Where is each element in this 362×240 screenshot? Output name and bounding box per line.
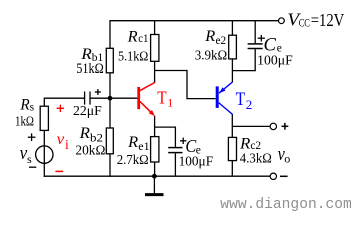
wire Ce2 bottom plate to node E2: [254, 49, 256, 71]
wire Rc2 bottom to ground rail: [231, 161, 233, 177]
label Re2: [204, 28, 226, 47]
label Re1: [127, 134, 150, 153]
terminal output minus circle: [270, 173, 276, 179]
transistor Q2 T2 emitter arrowhead: [219, 87, 225, 93]
wire top VCC rail: [110, 20, 278, 22]
svg-text:v: v: [57, 131, 65, 148]
svg-text:20kΩ: 20kΩ: [75, 144, 105, 159]
label T2: [236, 90, 253, 112]
ground symbol: [145, 176, 164, 194]
svg-text:s: s: [30, 101, 35, 113]
wire Rb1 bottom to node B1: [109, 73, 111, 128]
svg-text:c2: c2: [250, 140, 261, 152]
svg-text:o: o: [284, 152, 290, 166]
svg-text:s: s: [27, 152, 32, 166]
wire Rc1 top drop: [154, 21, 156, 35]
svg-text:3.9kΩ: 3.9kΩ: [195, 49, 228, 64]
polarity minus of vi red: [55, 170, 63, 172]
svg-text:i: i: [65, 137, 69, 152]
polarity minus of output: [280, 175, 288, 177]
svg-text:4.3kΩ: 4.3kΩ: [240, 152, 272, 167]
wire vs to Rs and through source to ground rail: [43, 130, 45, 177]
transistor Q1 T1 base bar: [137, 87, 140, 109]
wire Re1 bottom to ground rail: [154, 162, 156, 176]
resistor Rc2 4.3k box: [228, 137, 236, 160]
svg-text:R: R: [239, 135, 251, 152]
label Rc1: [127, 29, 149, 46]
polarity plus of Ce2: [258, 35, 265, 42]
svg-text:R: R: [127, 134, 138, 151]
svg-text:R: R: [127, 29, 138, 46]
svg-text:=12V: =12V: [311, 10, 345, 30]
junction node B1 dot: [108, 96, 113, 101]
svg-text:e1: e1: [138, 141, 150, 153]
svg-text:www.diangon.com: www.diangon.com: [220, 197, 351, 213]
wire T1 emitter to node E1: [154, 116, 156, 127]
svg-text:T: T: [157, 88, 167, 108]
source vs circle: [36, 146, 53, 163]
wire output node to terminal plus: [232, 125, 270, 127]
capacitor C1 22uF left plate: [84, 92, 86, 105]
label vo: [278, 144, 291, 165]
label Rb1: [80, 46, 103, 64]
wire node E1 to Re1: [154, 127, 156, 137]
wire Rb1 top drop: [109, 20, 111, 48]
capacitor C1 22uF right plate: [89, 92, 91, 105]
label VCC=12V: [287, 10, 344, 30]
resistor Rb2 20k box: [106, 128, 113, 154]
polarity plus of C1: [95, 89, 101, 95]
resistor Re2 3.9k box: [229, 35, 237, 59]
label Rs: [19, 97, 34, 114]
polarity minus of vs: [29, 166, 36, 168]
wire bottom ground rail: [44, 175, 270, 177]
junction ground node dot: [152, 174, 157, 179]
svg-text:22μF: 22μF: [73, 103, 102, 118]
terminal output plus circle: [270, 123, 276, 129]
svg-text:5.1kΩ: 5.1kΩ: [118, 49, 148, 64]
resistor Re1 2.7k box: [151, 137, 159, 162]
label T1: [157, 88, 173, 110]
capacitor Ce1 top plate: [168, 147, 182, 149]
transistor Q1 T1 emitter arrowhead: [149, 110, 155, 116]
terminal VCC circle: [279, 18, 285, 24]
wire source top to capacitor C1: [44, 98, 84, 106]
transistor Q1 T1 collector line: [140, 82, 155, 90]
resistor Rb1 51k box: [106, 48, 113, 73]
wire interstage coupling T1 collector to T2 base: [155, 71, 216, 99]
svg-text:R: R: [19, 97, 30, 114]
label Ce2: [264, 35, 282, 56]
wire T2 collector to output node: [231, 114, 233, 127]
polarity plus of vs: [28, 133, 36, 141]
svg-text:100μF: 100μF: [257, 53, 293, 68]
svg-text:2: 2: [246, 97, 253, 112]
polarity plus of output: [282, 123, 289, 130]
capacitor Ce2 top plate: [248, 43, 263, 45]
svg-text:R: R: [204, 28, 215, 45]
svg-text:R: R: [79, 125, 91, 142]
label vs: [20, 143, 32, 166]
wire node E1 to capacitor Ce1: [155, 127, 176, 147]
wire node E2 to capacitor Ce2 bottom: [232, 70, 255, 72]
wire Re2 top drop: [231, 21, 233, 36]
wire Ce2 top drop: [254, 21, 256, 44]
svg-text:c1: c1: [138, 33, 149, 45]
label vi red: [57, 131, 69, 152]
svg-text:e2: e2: [216, 35, 227, 47]
capacitor Ce2 bottom plate: [248, 48, 263, 50]
resistor Rs 1k box: [40, 106, 48, 130]
polarity plus of vi red: [57, 105, 64, 112]
wire capacitor Ce1 bottom to ground rail: [174, 153, 176, 176]
wire input node to T1 base: [90, 97, 137, 99]
resistor Rc1 5.1k box: [151, 35, 159, 62]
label Rc2: [239, 135, 261, 152]
wire Rc1 bottom to T1 collector: [154, 61, 156, 83]
svg-text:1: 1: [167, 96, 173, 110]
wire Rb2 bottom to ground rail: [109, 154, 111, 177]
transistor Q2 T2 collector line: [219, 103, 233, 115]
svg-text:CC: CC: [299, 17, 310, 29]
svg-text:51kΩ: 51kΩ: [76, 61, 104, 77]
wire Rc2 top: [231, 126, 233, 137]
transistor Q2 T2 base bar: [216, 86, 219, 108]
transistor Q1 T1 emitter line with arrow: [140, 101, 153, 114]
polarity plus of Ce1: [180, 138, 186, 144]
svg-text:100μF: 100μF: [179, 153, 214, 168]
svg-text:1kΩ: 1kΩ: [15, 114, 34, 129]
wire Re2 bottom to T2 emitter: [231, 59, 233, 83]
svg-text:2.7kΩ: 2.7kΩ: [117, 153, 149, 168]
svg-text:T: T: [236, 90, 246, 110]
transistor Q2 T2 emitter line with arrow: [219, 82, 232, 93]
capacitor Ce1 bottom plate: [168, 152, 182, 154]
label Ce1: [185, 136, 201, 156]
label Rb2: [79, 125, 104, 145]
